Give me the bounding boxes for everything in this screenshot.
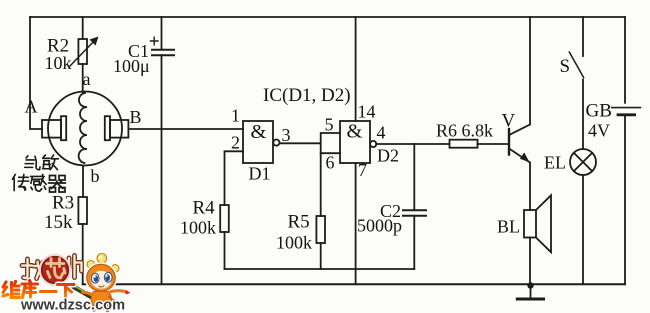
svg-text:GB: GB [586, 101, 612, 122]
svg-text:7: 7 [358, 160, 367, 180]
svg-text:R6 6.8k: R6 6.8k [436, 121, 493, 141]
svg-text:BL: BL [497, 217, 520, 237]
svg-text:D1: D1 [249, 164, 271, 184]
svg-text:1: 1 [231, 106, 240, 126]
svg-text:a: a [83, 69, 91, 89]
svg-text:A: A [25, 97, 38, 117]
svg-text:R3: R3 [52, 193, 74, 214]
svg-text:6: 6 [326, 153, 335, 173]
svg-text:2: 2 [231, 133, 240, 153]
svg-text:D2: D2 [377, 146, 399, 166]
svg-text:100k: 100k [276, 233, 312, 253]
svg-text:4: 4 [377, 123, 386, 143]
svg-text:V: V [502, 111, 516, 132]
svg-text:b: b [91, 166, 100, 186]
svg-text:EL: EL [544, 153, 566, 173]
svg-text:B: B [130, 107, 142, 127]
svg-text:10k: 10k [45, 53, 72, 73]
svg-text:&: & [251, 121, 267, 143]
svg-text:5: 5 [325, 115, 334, 135]
svg-text:100k: 100k [180, 218, 216, 238]
svg-text:15k: 15k [44, 212, 73, 233]
svg-text:S: S [560, 56, 571, 77]
svg-text:4V: 4V [588, 121, 610, 141]
svg-text:&: & [347, 121, 363, 143]
svg-text:IC(D1, D2): IC(D1, D2) [263, 85, 351, 106]
svg-text:100μ: 100μ [113, 56, 150, 76]
svg-text:14: 14 [358, 102, 376, 122]
svg-text:www.dzsc.com: www.dzsc.com [20, 298, 125, 313]
svg-text:3: 3 [282, 125, 291, 145]
svg-text:5000p: 5000p [357, 216, 402, 236]
svg-text:R5: R5 [288, 212, 310, 233]
svg-text:R4: R4 [193, 198, 216, 219]
